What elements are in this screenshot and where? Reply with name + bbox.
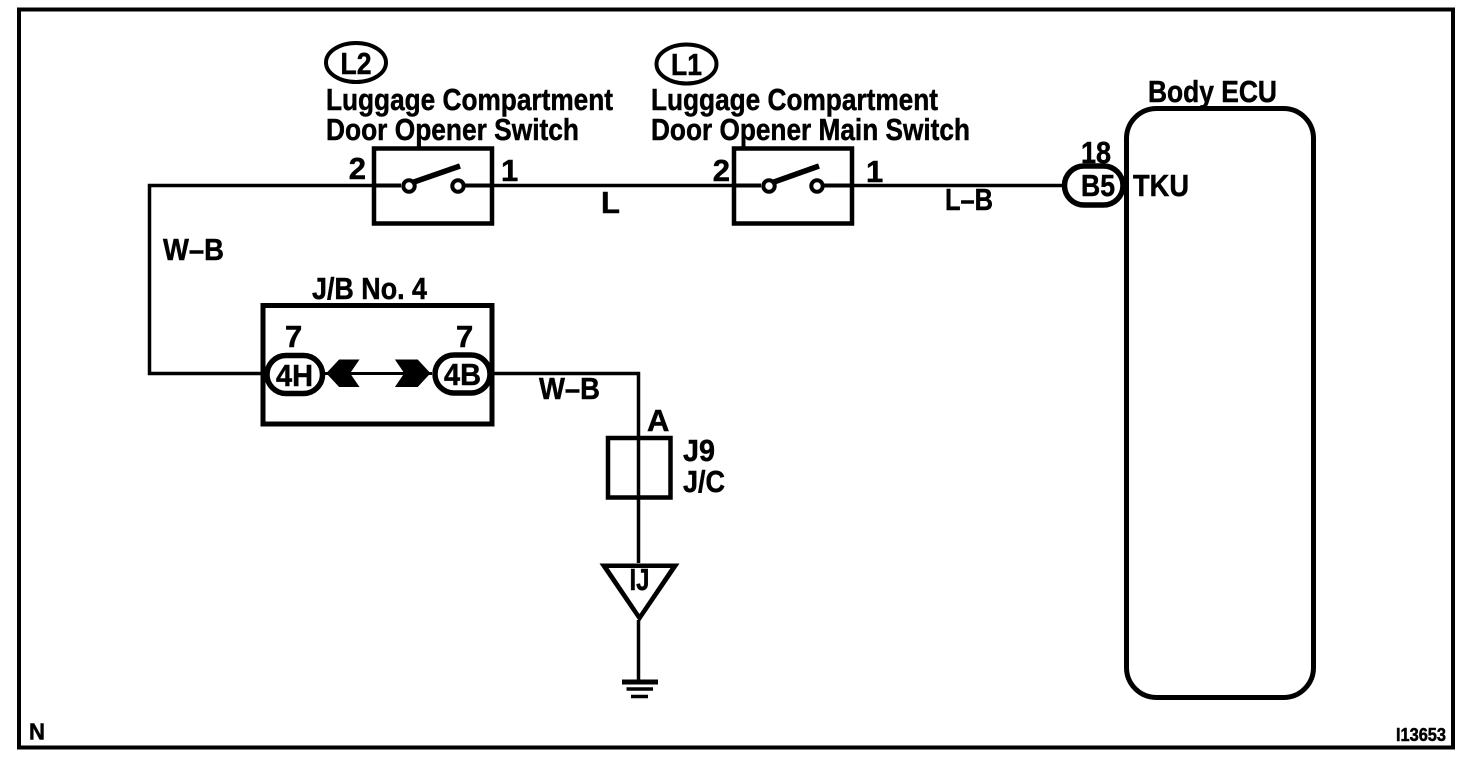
connector 4B [435,355,490,393]
wire label L [601,185,620,220]
svg-text:Door Opener Main Switch: Door Opener Main Switch [651,112,970,147]
svg-text:A: A [647,403,669,438]
wire: 4B to corner and down to J9 [492,374,639,437]
wire through J9 down to triangle [637,436,641,563]
svg-text:2: 2 [349,151,366,186]
pin 1 of L2 [501,153,518,188]
wire label L-B [945,182,993,217]
svg-text:L2: L2 [341,46,372,81]
ground symbol [622,682,658,697]
arrow pointing right (toward 4B) [395,360,431,388]
connector label L2 [326,43,386,82]
svg-text:Door Opener Switch: Door Opener Switch [326,112,579,147]
figure number I13653 [1396,725,1446,745]
pin A of J9 [647,403,669,438]
svg-text:L–B: L–B [945,182,993,217]
svg-text:J/B No. 4: J/B No. 4 [312,271,428,306]
svg-text:4H: 4H [276,358,313,393]
switch L2 box [374,149,492,224]
svg-text:IJ: IJ [630,562,650,597]
connector 4H [267,356,323,394]
svg-text:I13653: I13653 [1396,725,1446,745]
label J/B No. 4 [312,271,428,306]
wire: L2 pin1 to L1 pin2 [494,184,732,188]
pin 18 of Body ECU [1081,135,1111,170]
wire between 4H and 4B [325,372,432,375]
label: Luggage Compartment Door Opener Switch [326,82,613,147]
svg-text:J/C: J/C [683,464,725,499]
switch L1 box [734,149,852,224]
net name TKU [1133,168,1189,203]
svg-text:7: 7 [456,319,473,354]
arrow pointing left (toward 4H) [326,360,359,388]
Body ECU label [1148,74,1277,109]
label: Luggage Compartment Door Opener Main Switch [651,82,970,147]
switch L2 contacts and lever [376,166,492,192]
svg-text:W–B: W–B [539,371,600,406]
wire: left wire from L2 pin2 to corner and down to 4H [150,186,373,374]
svg-text:W–B: W–B [163,232,224,267]
switch L1 contacts and lever [736,166,851,192]
pin 7 (4B) [456,319,473,354]
connector label L1 [657,45,717,84]
connector B5 [1065,166,1124,205]
wire label W-B (left) [163,232,224,267]
svg-text:7: 7 [285,319,302,354]
wire: L1 pin1 to connector B5 [854,184,1064,188]
wire label W-B (right) [539,371,600,406]
junction connector J9 box [608,438,671,498]
pin 7 (4H) [285,319,302,354]
svg-text:N: N [29,719,45,745]
svg-text:TKU: TKU [1133,168,1189,203]
ground triangle IJ [600,562,680,622]
pin 1 of L1 [866,154,883,189]
svg-text:Body ECU: Body ECU [1148,74,1277,109]
svg-text:B5: B5 [1081,168,1115,203]
svg-text:1: 1 [501,153,518,188]
page letter N [29,719,45,745]
junction block J/B No.4 box [263,306,492,425]
svg-text:L: L [601,185,620,220]
wire: triangle to ground [637,620,641,680]
svg-text:L1: L1 [671,47,702,82]
pin 2 of L1 [713,153,730,188]
svg-text:2: 2 [713,153,730,188]
Body ECU box [1127,109,1314,698]
label J9 J/C [683,433,725,499]
pin 2 of L2 [349,151,366,186]
svg-text:J9: J9 [683,433,715,468]
svg-text:4B: 4B [444,357,481,392]
